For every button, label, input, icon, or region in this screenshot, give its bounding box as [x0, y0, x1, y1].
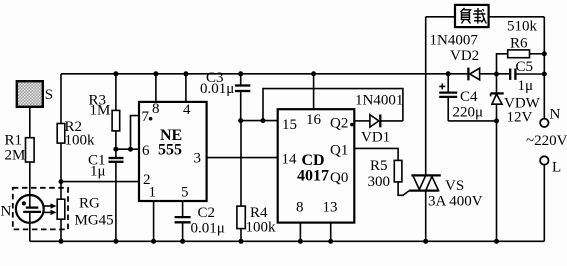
wire RG bottom to ground rail [60, 219, 62, 241]
svg-text:0.01μ: 0.01μ [200, 81, 234, 97]
svg-text:R6: R6 [510, 36, 528, 52]
sensor plate S [17, 81, 53, 107]
svg-text:1μ: 1μ [518, 78, 534, 94]
wire pin7 [131, 116, 140, 150]
capacitor C3 [200, 70, 250, 121]
svg-text:0.01μ: 0.01μ [191, 221, 225, 237]
wire pin6 [116, 148, 139, 150]
svg-text:16: 16 [306, 112, 322, 128]
wire R1 to neon lamp [29, 162, 31, 208]
wire pin 13 to ground rail [330, 223, 332, 242]
wire pin 4 to rail [185, 74, 187, 102]
wire triac bottom to ground rail [425, 191, 427, 242]
svg-text:C2: C2 [198, 205, 216, 221]
resistor R2 [57, 119, 95, 149]
svg-text:1μ: 1μ [90, 164, 106, 180]
svg-text:1: 1 [149, 185, 157, 201]
wire VD1 return loop to pin15 [263, 89, 403, 121]
wire bottom rail [30, 240, 545, 242]
IC U2 CD4017 [278, 109, 355, 222]
svg-text:C4: C4 [460, 89, 478, 105]
wire Q1 to R5 [354, 148, 398, 160]
artifact dot pin7 [149, 117, 153, 121]
svg-text:5: 5 [181, 185, 189, 201]
wire L terminal down to ground rail [543, 165, 545, 242]
svg-text:220μ: 220μ [453, 105, 484, 121]
svg-text:Q2: Q2 [330, 116, 348, 132]
svg-text:R1: R1 [5, 133, 23, 149]
svg-text:1N4001: 1N4001 [355, 93, 403, 109]
wire C3 node to pin 15 [241, 120, 278, 122]
svg-text:L: L [552, 160, 561, 176]
resistor R6 [497, 19, 545, 75]
neon lamp N [1, 195, 44, 223]
svg-text:3: 3 [194, 151, 202, 167]
node RG bottom [59, 239, 64, 244]
svg-text:8: 8 [296, 200, 304, 216]
svg-text:Q1: Q1 [330, 143, 348, 159]
svg-text:13: 13 [323, 200, 338, 216]
resistor R1 [5, 133, 35, 164]
svg-text:VS: VS [445, 178, 464, 194]
svg-text:6: 6 [142, 143, 150, 159]
wire node A to NE555 pin 2 [61, 181, 139, 183]
wire C4 bottom to VDW node [448, 120, 496, 122]
wire pin 3 to pin 14 [207, 157, 278, 159]
wire pin 1 to ground rail [153, 201, 155, 241]
svg-text:14: 14 [282, 152, 298, 168]
node VDW bottom / C4 [494, 118, 499, 123]
svg-text:300: 300 [368, 174, 391, 190]
svg-text:RG: RG [79, 196, 100, 212]
svg-text:100k: 100k [246, 220, 277, 236]
terminal L [540, 156, 561, 175]
svg-text:~220V: ~220V [526, 133, 567, 149]
svg-text:MG45: MG45 [75, 213, 114, 229]
svg-text:8: 8 [152, 101, 160, 117]
artifact dot Q2 [350, 123, 354, 127]
capacitor C5 [510, 59, 533, 94]
node R3/C1 [113, 147, 118, 152]
svg-text:Q0: Q0 [330, 170, 348, 186]
terminal N [540, 107, 560, 128]
capacitor C4 electrolytic [439, 71, 483, 121]
node R3 top [113, 71, 118, 76]
svg-text:C5: C5 [516, 59, 534, 75]
capacitor C1 [88, 149, 124, 241]
wire R2 bottom to node A [60, 143, 62, 182]
svg-text:1M: 1M [90, 103, 111, 119]
svg-text:VD1: VD1 [361, 130, 390, 146]
svg-text:100k: 100k [65, 133, 96, 149]
svg-text:4017: 4017 [297, 168, 329, 185]
diode VD2 1N4007 [430, 33, 480, 81]
wire pin 8 to rail [155, 74, 157, 102]
resistor R5 [368, 158, 402, 190]
svg-text:N: N [1, 204, 12, 220]
op-amp U1 NE555 [139, 101, 207, 201]
wire VDW node down to ground rail [496, 121, 498, 241]
resistor R3 [89, 74, 120, 149]
load box 负载 [426, 5, 545, 27]
wire top supply rail [61, 73, 544, 75]
node pin7 drop [128, 147, 133, 152]
node VD2/C5/R6/VDW [494, 72, 499, 77]
载 character strokes [473, 8, 487, 24]
wire right rail from load to N terminal [543, 17, 545, 119]
svg-text:15: 15 [282, 117, 297, 133]
svg-text:2M: 2M [5, 148, 26, 164]
svg-text:4: 4 [183, 102, 191, 118]
svg-text:1N4007: 1N4007 [430, 33, 479, 49]
svg-text:7: 7 [142, 109, 150, 125]
wire pin 16 to rail [313, 74, 315, 109]
svg-text:R5: R5 [370, 158, 388, 174]
wire RG top to node A [60, 182, 62, 200]
optocoupler dashed enclosure [13, 188, 68, 230]
负 character strokes [461, 8, 471, 24]
wire triac main vertical top [425, 17, 427, 176]
node C1 bottom [113, 239, 118, 244]
wire R5 to triac gate [398, 182, 409, 195]
photoresistor RG [57, 196, 113, 229]
svg-text:VD2: VD2 [450, 48, 479, 64]
svg-text:555: 555 [158, 142, 182, 159]
wire left column from rail to R2 [60, 74, 62, 124]
svg-text:S: S [45, 87, 53, 103]
capacitor C2 [175, 201, 225, 241]
diode VD1 1N4001 [354, 93, 403, 146]
svg-text:3A 400V: 3A 400V [428, 194, 483, 210]
light arrows neon to RG [44, 203, 57, 215]
node A junction [59, 179, 64, 184]
wire neon bottom [29, 212, 31, 241]
svg-text:N: N [550, 107, 561, 123]
zener diode VDW [491, 74, 541, 126]
svg-text:CD: CD [302, 152, 325, 169]
wire S to R1 [29, 107, 31, 138]
triac VS [409, 175, 483, 209]
wire pin 8 to ground rail [299, 223, 301, 242]
svg-text:12V: 12V [507, 110, 533, 126]
svg-text:510k: 510k [507, 19, 538, 35]
resistor R4 [237, 121, 276, 242]
